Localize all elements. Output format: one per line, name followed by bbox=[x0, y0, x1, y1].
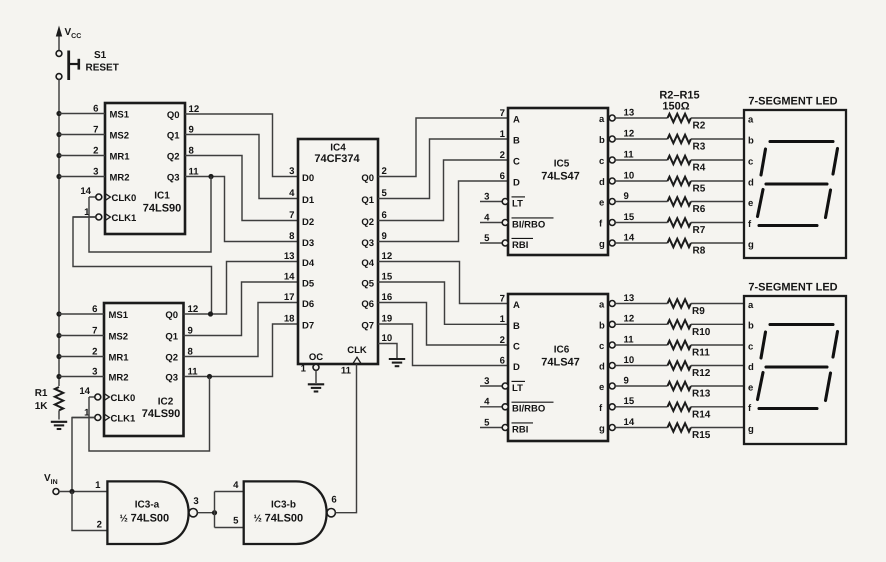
resistor R5 bbox=[615, 177, 744, 195]
svg-text:6: 6 bbox=[500, 355, 505, 366]
resistor R14 bbox=[615, 403, 744, 421]
svg-text:16: 16 bbox=[382, 292, 393, 303]
svg-text:MS1: MS1 bbox=[110, 110, 130, 121]
svg-text:CLK0: CLK0 bbox=[111, 393, 136, 404]
junction bus/IC1 row 1 bbox=[56, 132, 61, 137]
wire Vcc bus (S1 to R1) bbox=[58, 79, 60, 386]
svg-text:15: 15 bbox=[382, 272, 393, 283]
svg-text:c: c bbox=[599, 156, 604, 167]
svg-text:MR2: MR2 bbox=[109, 373, 129, 384]
pin CLK0 (14) of IC1 bbox=[89, 196, 96, 198]
pin MR1 (2) of IC1 bbox=[59, 155, 105, 157]
svg-text:Q0: Q0 bbox=[167, 110, 180, 121]
svg-text:b: b bbox=[748, 135, 754, 146]
svg-text:5: 5 bbox=[484, 417, 490, 428]
pin BI/RBO (4) of IC6 bbox=[480, 406, 502, 408]
svg-text:C: C bbox=[513, 157, 520, 168]
wire IC3-a out to IC3-b in bbox=[197, 512, 214, 514]
svg-text:CLK1: CLK1 bbox=[111, 414, 137, 425]
junction bus/IC2 row 2 bbox=[56, 354, 61, 359]
svg-text:Q1: Q1 bbox=[361, 195, 374, 206]
resistor R4 bbox=[615, 156, 744, 174]
svg-text:5: 5 bbox=[382, 188, 388, 199]
svg-text:R3: R3 bbox=[693, 142, 706, 153]
svg-text:d: d bbox=[748, 177, 754, 188]
svg-text:5: 5 bbox=[484, 233, 490, 244]
svg-text:14: 14 bbox=[624, 417, 635, 428]
svg-text:IC3-a: IC3-a bbox=[135, 500, 160, 511]
svg-text:2: 2 bbox=[500, 150, 505, 161]
pin LT (3) of IC5 bbox=[480, 201, 502, 203]
resistor R8 bbox=[615, 239, 744, 257]
svg-text:a: a bbox=[599, 300, 605, 311]
wire IC2.Q0 to IC4.D4 bbox=[184, 262, 299, 315]
svg-text:Q0: Q0 bbox=[165, 310, 178, 321]
junction bus/IC2 row 0 bbox=[56, 311, 61, 316]
segment lower-right of LED1 bbox=[826, 190, 831, 218]
ground (IC4 pin10) bbox=[389, 359, 405, 366]
power Vcc bbox=[56, 26, 81, 51]
svg-text:10: 10 bbox=[382, 333, 393, 344]
segment lower-left of LED2 bbox=[758, 373, 764, 400]
svg-text:B: B bbox=[513, 321, 520, 332]
svg-text:11: 11 bbox=[624, 334, 635, 345]
wire to IC3-b pin5 bbox=[215, 527, 244, 529]
svg-text:Q3: Q3 bbox=[167, 173, 180, 184]
svg-text:D: D bbox=[513, 362, 520, 373]
resistor R1 1K bbox=[35, 387, 63, 420]
junction bus/IC1 row 2 bbox=[56, 153, 61, 158]
svg-text:c: c bbox=[748, 156, 753, 167]
svg-text:13: 13 bbox=[624, 293, 635, 304]
wire IC4.Q6 to IC6.C bbox=[378, 303, 508, 346]
svg-text:Q3: Q3 bbox=[361, 238, 374, 249]
svg-text:12: 12 bbox=[624, 128, 635, 139]
svg-text:Q0: Q0 bbox=[361, 173, 374, 184]
junction bus/IC2 row 1 bbox=[56, 333, 61, 338]
svg-text:e: e bbox=[599, 382, 604, 393]
pin RBI (5) of IC6 bbox=[480, 427, 502, 429]
svg-text:RBI: RBI bbox=[512, 424, 528, 435]
svg-text:b: b bbox=[748, 321, 754, 332]
svg-text:3: 3 bbox=[193, 496, 198, 507]
svg-text:R15: R15 bbox=[692, 430, 711, 441]
svg-text:½ 74LS00: ½ 74LS00 bbox=[254, 513, 304, 525]
svg-text:½ 74LS00: ½ 74LS00 bbox=[120, 513, 170, 525]
svg-text:CLK1: CLK1 bbox=[112, 213, 138, 224]
switch S1 RESET bbox=[56, 50, 119, 80]
svg-text:9: 9 bbox=[382, 231, 387, 242]
counter IC2 74LS90 bbox=[59, 303, 198, 436]
svg-text:1: 1 bbox=[500, 314, 506, 325]
svg-text:14: 14 bbox=[284, 272, 295, 283]
svg-text:2: 2 bbox=[97, 520, 102, 531]
svg-text:Q4: Q4 bbox=[361, 258, 374, 269]
wire IC4.Q3 to IC5.D bbox=[378, 181, 508, 242]
svg-text:RESET: RESET bbox=[86, 63, 119, 74]
svg-text:IC4: IC4 bbox=[330, 142, 346, 153]
segment lower-left of LED1 bbox=[758, 190, 764, 217]
svg-text:3: 3 bbox=[484, 376, 489, 387]
svg-text:A: A bbox=[513, 115, 520, 126]
svg-text:1: 1 bbox=[301, 364, 307, 375]
svg-text:MR1: MR1 bbox=[109, 353, 130, 364]
wire IC3-b input tie bbox=[214, 492, 216, 528]
svg-text:9: 9 bbox=[624, 191, 629, 202]
svg-text:IC6: IC6 bbox=[554, 345, 570, 356]
wire IC2.Q3 feedback to IC2.CLK0 bbox=[89, 377, 210, 452]
wire IC4.Q4 to IC6.A bbox=[378, 262, 508, 304]
svg-text:d: d bbox=[599, 362, 605, 373]
pin MS1 (6) of IC2 bbox=[59, 313, 104, 315]
segment lower-right of LED2 bbox=[826, 373, 831, 401]
svg-text:1: 1 bbox=[95, 480, 101, 491]
svg-text:LT: LT bbox=[512, 198, 523, 209]
svg-text:12: 12 bbox=[382, 251, 393, 262]
svg-text:MS2: MS2 bbox=[109, 332, 129, 343]
svg-text:R12: R12 bbox=[692, 368, 711, 379]
svg-text:D6: D6 bbox=[302, 299, 314, 310]
segment bottom of LED2 bbox=[759, 407, 817, 410]
svg-text:D0: D0 bbox=[302, 173, 314, 184]
decoder IC6 74LS47 bbox=[480, 293, 635, 441]
svg-text:e: e bbox=[748, 382, 753, 393]
svg-text:S1: S1 bbox=[94, 50, 107, 61]
svg-text:7-SEGMENT LED: 7-SEGMENT LED bbox=[748, 282, 837, 294]
svg-text:8: 8 bbox=[289, 231, 295, 242]
svg-text:7: 7 bbox=[500, 293, 505, 304]
svg-text:74LS90: 74LS90 bbox=[142, 408, 181, 420]
segment top of LED1 bbox=[770, 140, 833, 143]
svg-text:MR1: MR1 bbox=[110, 152, 131, 163]
junction Vin node bbox=[69, 489, 74, 494]
junction bus/IC2 row 3 bbox=[56, 374, 61, 379]
svg-text:3: 3 bbox=[289, 166, 294, 177]
ground (below R1) bbox=[51, 422, 67, 429]
display LED2 7-SEGMENT LED bbox=[744, 282, 846, 445]
svg-text:4: 4 bbox=[484, 397, 490, 408]
junction IC3-a output node bbox=[212, 510, 217, 515]
svg-text:g: g bbox=[748, 239, 754, 250]
svg-text:9: 9 bbox=[624, 375, 629, 386]
resistor R2 bbox=[615, 114, 744, 132]
svg-text:Q1: Q1 bbox=[165, 332, 178, 343]
svg-text:R1: R1 bbox=[35, 388, 48, 399]
nand gate IC3-a 74LS00 bbox=[95, 480, 199, 544]
svg-text:3: 3 bbox=[93, 167, 98, 178]
svg-text:BI/RBO: BI/RBO bbox=[512, 219, 545, 230]
svg-text:b: b bbox=[599, 321, 605, 332]
wire IC3-b out to IC4.CLK bbox=[335, 364, 356, 513]
svg-text:5: 5 bbox=[233, 516, 239, 527]
segment middle of LED2 bbox=[766, 365, 827, 368]
svg-text:MS1: MS1 bbox=[109, 310, 129, 321]
svg-text:7: 7 bbox=[92, 326, 97, 337]
wire IC2.CLK1 to Vin node bbox=[72, 418, 95, 492]
svg-text:Q6: Q6 bbox=[361, 299, 374, 310]
svg-text:R7: R7 bbox=[693, 225, 706, 236]
svg-text:g: g bbox=[599, 239, 605, 250]
svg-text:MS2: MS2 bbox=[110, 131, 130, 142]
resistor R10 bbox=[615, 320, 744, 338]
svg-text:c: c bbox=[748, 341, 753, 352]
svg-text:R4: R4 bbox=[693, 163, 706, 174]
svg-text:d: d bbox=[599, 177, 605, 188]
svg-text:a: a bbox=[748, 114, 754, 125]
svg-text:10: 10 bbox=[624, 355, 635, 366]
svg-text:a: a bbox=[599, 114, 605, 125]
svg-text:D: D bbox=[513, 178, 520, 189]
pin MS2 (7) of IC1 bbox=[59, 134, 105, 136]
junction IC2.Q0 node bbox=[208, 311, 213, 316]
svg-text:7: 7 bbox=[289, 210, 294, 221]
wire to IC3-b pin4 bbox=[215, 491, 244, 493]
svg-text:15: 15 bbox=[624, 212, 635, 223]
svg-text:18: 18 bbox=[284, 314, 295, 325]
svg-text:74CF374: 74CF374 bbox=[314, 153, 360, 165]
wire IC4.Q0 to IC5.A bbox=[378, 118, 508, 177]
svg-text:d: d bbox=[748, 362, 754, 373]
display LED1 7-SEGMENT LED bbox=[744, 96, 846, 259]
svg-text:13: 13 bbox=[624, 107, 635, 118]
svg-text:C: C bbox=[513, 342, 520, 353]
svg-text:Q3: Q3 bbox=[165, 373, 178, 384]
wire IC1.Q2 to IC4.D2 bbox=[185, 156, 298, 221]
wire IC2.Q2 to IC4.D6 bbox=[184, 303, 299, 357]
svg-text:Q5: Q5 bbox=[361, 279, 374, 290]
junction bus/IC1 row 3 bbox=[56, 174, 61, 179]
svg-text:7: 7 bbox=[93, 125, 98, 136]
svg-text:7-SEGMENT LED: 7-SEGMENT LED bbox=[748, 96, 837, 108]
svg-text:74LS47: 74LS47 bbox=[541, 171, 580, 183]
decoder IC5 74LS47 bbox=[480, 107, 635, 255]
svg-text:MR2: MR2 bbox=[110, 173, 130, 184]
svg-text:19: 19 bbox=[382, 314, 393, 325]
pin RBI (5) of IC5 bbox=[480, 242, 502, 244]
wire IC4.Q5 to IC6.B bbox=[378, 282, 508, 324]
svg-text:R13: R13 bbox=[692, 389, 711, 400]
ground (IC4 OC) bbox=[308, 384, 324, 391]
svg-text:c: c bbox=[599, 341, 604, 352]
resistor R6 bbox=[615, 197, 744, 215]
svg-text:D5: D5 bbox=[302, 279, 315, 290]
svg-text:10: 10 bbox=[624, 170, 635, 181]
svg-text:IC3-b: IC3-b bbox=[271, 500, 296, 511]
segment upper-left of LED2 bbox=[761, 332, 766, 358]
svg-text:Q1: Q1 bbox=[167, 131, 180, 142]
pin CLK1 (1) of IC2 bbox=[72, 417, 95, 419]
svg-text:1K: 1K bbox=[35, 401, 49, 412]
svg-text:150Ω: 150Ω bbox=[662, 100, 689, 112]
resistor R12 bbox=[615, 361, 744, 379]
segment upper-left of LED1 bbox=[761, 149, 766, 175]
svg-text:LT: LT bbox=[512, 383, 523, 394]
svg-text:D7: D7 bbox=[302, 321, 314, 332]
svg-text:3: 3 bbox=[92, 367, 97, 378]
svg-text:IC5: IC5 bbox=[554, 159, 570, 170]
svg-text:g: g bbox=[748, 424, 754, 435]
svg-text:3: 3 bbox=[484, 191, 489, 202]
svg-text:1: 1 bbox=[500, 129, 506, 140]
wire Vin to IC3-a pin1 bbox=[59, 491, 108, 493]
svg-text:15: 15 bbox=[624, 396, 635, 407]
svg-text:74LS47: 74LS47 bbox=[541, 357, 580, 369]
wire IC1.Q1 to IC4.D1 bbox=[185, 135, 298, 199]
svg-text:2: 2 bbox=[500, 335, 505, 346]
svg-text:R11: R11 bbox=[692, 348, 710, 359]
pin BI/RBO (4) of IC5 bbox=[480, 222, 502, 224]
pin CLK1 (1) of IC1 bbox=[73, 216, 96, 218]
svg-text:2: 2 bbox=[93, 146, 98, 157]
svg-text:BI/RBO: BI/RBO bbox=[512, 404, 545, 415]
svg-text:12: 12 bbox=[624, 314, 635, 325]
svg-text:6: 6 bbox=[382, 210, 387, 221]
svg-text:A: A bbox=[513, 300, 520, 311]
svg-text:IC2: IC2 bbox=[158, 397, 174, 408]
resistor R11 bbox=[615, 341, 744, 359]
svg-text:CLK: CLK bbox=[347, 345, 367, 356]
resistor R9 bbox=[615, 299, 744, 317]
svg-text:e: e bbox=[748, 198, 753, 209]
segment upper-right of LED2 bbox=[833, 332, 838, 358]
svg-text:R14: R14 bbox=[692, 409, 711, 420]
pin 10 of IC4 to ground bbox=[378, 344, 397, 359]
svg-text:14: 14 bbox=[80, 186, 91, 197]
svg-text:e: e bbox=[599, 198, 604, 209]
svg-text:2: 2 bbox=[92, 347, 97, 358]
svg-text:74LS90: 74LS90 bbox=[143, 203, 182, 215]
pin MR1 (2) of IC2 bbox=[59, 356, 104, 358]
pin MR2 (3) of IC2 bbox=[59, 376, 104, 378]
svg-text:R5: R5 bbox=[693, 184, 706, 195]
segment bottom of LED1 bbox=[759, 224, 817, 227]
wire IC4.Q2 to IC5.C bbox=[378, 160, 508, 221]
svg-text:B: B bbox=[513, 136, 520, 147]
svg-text:13: 13 bbox=[284, 251, 295, 262]
resistor R13 bbox=[615, 382, 744, 400]
svg-text:R8: R8 bbox=[693, 246, 706, 257]
svg-text:4: 4 bbox=[484, 212, 490, 223]
resistor R15 bbox=[615, 423, 744, 441]
svg-text:RBI: RBI bbox=[512, 240, 528, 251]
svg-text:17: 17 bbox=[284, 292, 295, 303]
svg-text:6: 6 bbox=[92, 304, 97, 315]
svg-text:R10: R10 bbox=[692, 327, 711, 338]
pin CLK0 (14) of IC2 bbox=[89, 396, 95, 398]
junction IC1.Q3 node bbox=[208, 174, 213, 179]
nand gate IC3-b 74LS00 bbox=[233, 480, 337, 544]
node Vin bbox=[44, 473, 59, 495]
latch IC4 74CF374 bbox=[284, 139, 393, 383]
svg-text:IC1: IC1 bbox=[154, 191, 170, 202]
junction bus/IC1 row 0 bbox=[56, 111, 61, 116]
svg-text:OC: OC bbox=[309, 352, 323, 363]
counter IC1 74LS90 bbox=[59, 103, 199, 234]
svg-text:a: a bbox=[748, 300, 754, 311]
svg-text:14: 14 bbox=[624, 232, 635, 243]
svg-text:7: 7 bbox=[500, 108, 505, 119]
svg-text:6: 6 bbox=[331, 495, 336, 506]
svg-text:14: 14 bbox=[79, 386, 90, 397]
segment upper-right of LED1 bbox=[833, 149, 838, 175]
segment top of LED2 bbox=[770, 323, 833, 326]
resistor R7 bbox=[615, 218, 744, 236]
svg-text:Q2: Q2 bbox=[165, 353, 178, 364]
svg-text:R9: R9 bbox=[692, 306, 705, 317]
svg-text:b: b bbox=[599, 135, 605, 146]
wire IC1.CLK1 to IC2.Q0 node bbox=[73, 217, 212, 314]
wire IC4.Q1 to IC5.B bbox=[378, 139, 508, 199]
svg-text:6: 6 bbox=[500, 171, 505, 182]
svg-text:D4: D4 bbox=[302, 258, 315, 269]
svg-text:11: 11 bbox=[341, 365, 352, 376]
svg-text:D3: D3 bbox=[302, 238, 314, 249]
wire IC2.Q3 to IC4.D7 bbox=[184, 324, 299, 377]
junction IC2.Q3 node bbox=[207, 374, 212, 379]
wire IC1.Q3 to IC4.D3 bbox=[185, 177, 298, 242]
svg-text:g: g bbox=[599, 424, 605, 435]
svg-text:Q2: Q2 bbox=[361, 217, 374, 228]
svg-text:6: 6 bbox=[93, 104, 98, 115]
wire IC1.Q0 to IC4.D0 bbox=[185, 114, 298, 177]
pin MS2 (7) of IC2 bbox=[59, 335, 104, 337]
wire Vin to IC3-a pin2 bbox=[72, 492, 107, 531]
wire IC2.Q1 to IC4.D5 bbox=[184, 282, 299, 336]
wire IC4.Q7 to IC6.D bbox=[378, 324, 508, 366]
wire IC1.Q3 feedback to IC1.CLK0 bbox=[89, 177, 211, 253]
svg-text:D1: D1 bbox=[302, 195, 315, 206]
svg-text:2: 2 bbox=[382, 166, 387, 177]
svg-text:4: 4 bbox=[289, 188, 295, 199]
segment middle of LED1 bbox=[766, 182, 827, 185]
svg-text:Q7: Q7 bbox=[361, 321, 374, 332]
svg-text:Q2: Q2 bbox=[167, 152, 180, 163]
svg-text:4: 4 bbox=[233, 480, 239, 491]
pin LT (3) of IC6 bbox=[480, 385, 502, 387]
svg-text:11: 11 bbox=[624, 149, 635, 160]
svg-text:D2: D2 bbox=[302, 217, 314, 228]
svg-text:CLK0: CLK0 bbox=[112, 193, 137, 204]
resistor R3 bbox=[615, 135, 744, 153]
pin MR2 (3) of IC1 bbox=[59, 176, 105, 178]
svg-text:R2: R2 bbox=[693, 121, 706, 132]
pin MS1 (6) of IC1 bbox=[59, 113, 105, 115]
svg-text:R6: R6 bbox=[693, 204, 706, 215]
